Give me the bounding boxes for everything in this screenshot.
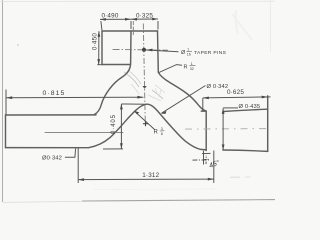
svg-text:1·312: 1·312 [142,172,159,179]
svg-text:3: 3 [161,127,163,131]
svg-text:8: 8 [205,161,207,165]
svg-text:0·815: 0·815 [43,90,66,97]
svg-text:Ø 0·342: Ø 0·342 [207,84,229,90]
svg-text:R: R [154,130,159,136]
svg-text:1: 1 [191,62,193,66]
svg-text:32: 32 [190,67,194,71]
svg-text:Ø0·342: Ø0·342 [42,156,62,162]
svg-text:Ø 0·435: Ø 0·435 [239,104,261,110]
svg-text:0·490: 0·490 [101,13,118,20]
svg-text:0·405: 0·405 [111,114,117,134]
svg-text:TAPER PINS: TAPER PINS [194,50,227,56]
svg-text:0·625: 0·625 [227,89,244,96]
svg-text:1: 1 [187,47,189,51]
svg-text:R: R [184,64,188,70]
svg-text:8: 8 [161,132,163,136]
svg-text:1: 1 [205,155,207,159]
svg-text:Ø: Ø [181,50,186,56]
svg-text:16: 16 [187,52,191,56]
svg-text:0·325: 0·325 [136,13,153,20]
svg-text:0·450: 0·450 [92,33,99,50]
